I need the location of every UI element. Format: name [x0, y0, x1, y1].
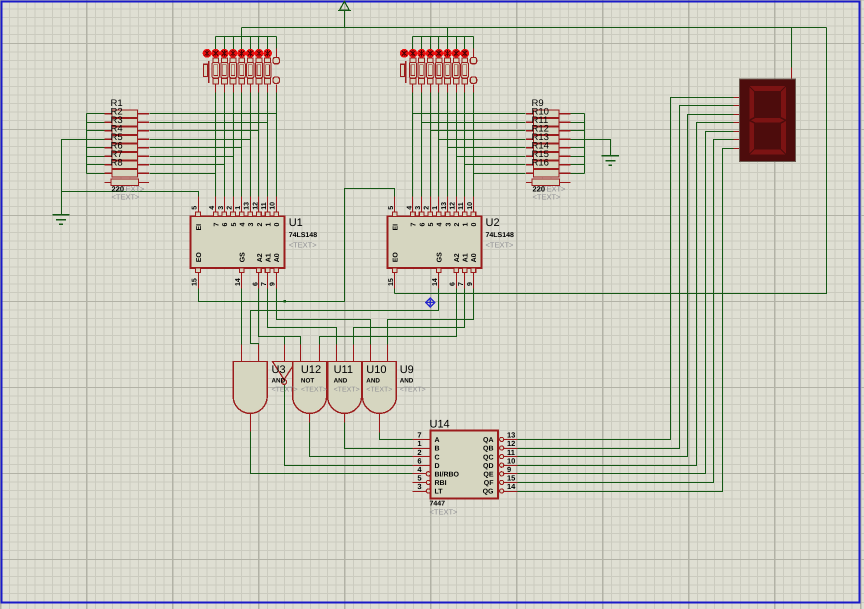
ground GND right: [602, 156, 619, 165]
wire: U12 output to U14 D: [285, 385, 413, 466]
gate input pin stubs: [241, 345, 243, 362]
segment B (top-right): [781, 87, 786, 120]
svg-text:GS: GS: [437, 252, 444, 262]
power symbol (arrow up): [338, 1, 351, 10]
svg-text:13: 13: [244, 202, 251, 210]
segment C (bottom-right): [781, 121, 786, 154]
wire: ground branch to U1 EI: [62, 192, 199, 199]
wire: VCC power rail: [242, 27, 827, 29]
svg-text:R8: R8: [111, 157, 123, 168]
wire: U10 output to U14 B: [345, 423, 413, 449]
wire: U2 A1 to U10 input b: [354, 289, 465, 345]
wire: R1 right to switch column: [150, 113, 277, 115]
svg-text:13: 13: [441, 202, 448, 210]
wire: R7 right to switch column: [150, 164, 225, 166]
svg-text:R16: R16: [532, 157, 549, 168]
wire: right DIP bus: [413, 36, 474, 38]
svg-text:12: 12: [450, 202, 457, 210]
wire: R10 left to switch column: [422, 122, 526, 124]
svg-text:6: 6: [450, 282, 457, 286]
wire: U14 QA to display segment 1: [518, 98, 734, 440]
wire: left DIP bus drop col 7: [267, 37, 269, 50]
wire: left pack bus vertical: [86, 114, 88, 174]
wire: R4 right to switch column: [150, 139, 251, 141]
wire: U2 A0 to U9 input b: [388, 289, 474, 345]
wire: R2 right to switch column: [150, 122, 268, 124]
wire: right DIP col 5 to U2 input: [447, 93, 449, 197]
DIP switch DSW2 element 1 toggle dot: [409, 49, 418, 58]
DIP switch DSW1 common pads: [273, 57, 279, 83]
U2 top pin numbers: [388, 202, 474, 210]
wire: U2 EO down to row: [394, 289, 396, 294]
wire: left DIP col 8 to U1 input: [276, 93, 278, 197]
svg-text:3: 3: [417, 482, 421, 491]
U14 right pin stubs: [504, 439, 518, 441]
DIP switch DSW2 element 3 body: [427, 58, 434, 84]
wire: U1 A0 to U9 input a: [277, 289, 371, 345]
resistor R6: [105, 153, 150, 160]
svg-text:AND: AND: [272, 378, 286, 385]
DIP switch DSW2 bracket toggle dot: [400, 49, 409, 58]
DIP switch DSW1 element 6 toggle dot: [255, 49, 264, 58]
svg-text:A0: A0: [274, 253, 281, 262]
wire: right DIP bus drop col 5: [447, 37, 449, 50]
wire: U14 QG to display segment 7: [518, 149, 734, 492]
wire: R14 left to switch column: [457, 156, 526, 158]
U14 left pin stubs: [413, 439, 431, 441]
svg-text:QD: QD: [483, 463, 494, 470]
AND gate U3: [233, 362, 267, 414]
wire: R6 left to bus: [87, 156, 105, 158]
U2 bottom pin stubs: [394, 273, 396, 289]
svg-text:B: B: [435, 446, 440, 453]
U1 top pin numbers: [191, 202, 276, 210]
resistor R9: [526, 110, 571, 117]
svg-text:U14: U14: [430, 419, 450, 431]
svg-text:<TEXT>: <TEXT>: [112, 192, 141, 201]
svg-text:A1: A1: [463, 253, 470, 262]
resistor R2: [105, 119, 150, 126]
U1 pin names: [196, 223, 281, 263]
svg-text:AND: AND: [400, 378, 414, 385]
wire: R11 right to bus: [571, 130, 585, 132]
wire: right DIP col 4 to U2 input: [438, 93, 440, 197]
resistor R11: [526, 127, 571, 134]
AND gate U10: [328, 362, 362, 414]
svg-text:<TEXT>: <TEXT>: [272, 387, 298, 394]
svg-text:NOT: NOT: [301, 378, 314, 385]
svg-text:QE: QE: [483, 472, 493, 479]
DIP switch DSW1 element 7 toggle dot: [263, 49, 272, 58]
74LS148 U1 body: [191, 216, 285, 268]
wire: right pack bus tap to ground: [585, 140, 611, 156]
DIP switch DSW1 element 2 toggle dot: [220, 49, 229, 58]
DIP switch DSW2 element 6 toggle dot: [452, 49, 461, 58]
wire: R15 right to bus: [571, 164, 585, 166]
svg-text:A1: A1: [265, 253, 272, 262]
svg-text:1: 1: [265, 223, 272, 227]
svg-text:<TEXT>: <TEXT>: [334, 387, 360, 394]
DIP switch DSW1 element 2 body: [221, 58, 228, 84]
DIP switch DSW1 element 7 body: [264, 58, 271, 84]
wire: U14 QB to display segment 2: [518, 106, 734, 449]
svg-text:5: 5: [191, 206, 198, 210]
wire: left DIP bus drop col 2: [224, 37, 226, 50]
DIP switch DSW2 element 4 toggle dot: [434, 49, 443, 58]
resistor R5: [105, 144, 150, 151]
DIP switch DSW2 bracket: [401, 61, 406, 83]
wire: R6 right to switch column: [150, 156, 234, 158]
svg-text:10: 10: [270, 202, 277, 210]
wire: U14 QF to display segment 6: [518, 140, 734, 483]
svg-text:<TEXT>: <TEXT>: [400, 387, 426, 394]
wire: right DIP col 2 to U2 input: [421, 93, 423, 197]
svg-text:U3: U3: [272, 364, 286, 376]
svg-text:QA: QA: [483, 437, 494, 444]
resistor R1: [105, 110, 150, 117]
wire: R8 left to bus: [87, 173, 105, 175]
wire: R9 left to switch column: [413, 113, 526, 115]
U14 output bubbles: [500, 437, 504, 493]
svg-text:2: 2: [257, 223, 264, 227]
wire: rail drop to right DIP bus: [447, 28, 449, 37]
wire: R10 right to bus: [571, 122, 585, 124]
wire: left DIP bus drop common: [276, 37, 278, 49]
wire: R11 left to switch column: [431, 130, 526, 132]
wire: right DIP col 7 to U2 input: [464, 93, 466, 197]
wire: left DIP bus drop col 4: [241, 37, 243, 50]
DIP switch DSW1 element 4 body: [238, 58, 245, 84]
wire: R5 left to bus: [87, 147, 105, 149]
wire: U14 QE to display segment 5: [518, 132, 734, 474]
left DIP bottom stubs: [215, 85, 217, 93]
wire: R7 left to bus: [87, 164, 105, 166]
wire: left DIP col 2 to U1 input: [224, 93, 226, 197]
right DIP common top stub: [473, 49, 475, 58]
U1 top pin stubs: [198, 197, 200, 213]
wire: right DIP col 6 to U2 input: [456, 93, 458, 197]
svg-text:A: A: [435, 437, 440, 444]
DIP switch DSW2 common pads: [470, 57, 476, 83]
svg-text:4: 4: [437, 223, 444, 227]
wire: right pack bus vertical: [584, 114, 586, 174]
segment A (top): [750, 86, 785, 91]
svg-text:U2: U2: [486, 217, 500, 229]
wire: R1 left to bus: [87, 113, 105, 115]
U1 pin pads: [196, 212, 279, 273]
wire: R9 right to bus: [571, 113, 585, 115]
wire: right DIP bus drop col 6: [456, 37, 458, 50]
wire: U1 GS to U3 input a: [241, 289, 243, 345]
svg-text:<TEXT>: <TEXT>: [366, 387, 392, 394]
U1 bottom pin stubs: [198, 273, 200, 289]
wire: rail right riser to U2 EO row: [395, 28, 827, 294]
svg-text:1: 1: [235, 206, 242, 210]
DIP switch DSW1 element 6 body: [255, 58, 262, 84]
wire: R5 right to switch column: [150, 147, 242, 149]
wire: U9 output to U14 A: [380, 433, 413, 440]
svg-text:15: 15: [388, 278, 395, 286]
NOT gate U12: [273, 362, 296, 385]
DIP switch DSW2 element 2 body: [418, 58, 425, 84]
svg-text:D: D: [435, 463, 440, 470]
wire: right DIP bus drop common: [473, 37, 475, 49]
svg-text:3: 3: [415, 206, 422, 210]
wire: right DIP col 3 to U2 input: [430, 93, 432, 197]
wire: R4 left to bus: [87, 139, 105, 141]
svg-text:QC: QC: [483, 454, 494, 461]
segment G (middle): [751, 118, 784, 123]
segment D (bottom): [750, 150, 785, 155]
svg-text:<TEXT>: <TEXT>: [533, 192, 562, 201]
svg-text:1: 1: [463, 223, 470, 227]
U2 pin pads: [392, 212, 475, 273]
U14 left pin names: [435, 437, 460, 496]
ground GND left: [52, 215, 69, 224]
U2 pin names: [393, 223, 479, 263]
wire: R16 left to switch column: [474, 173, 526, 175]
svg-text:2: 2: [454, 223, 461, 227]
DIP switch DSW2 element 7 toggle dot: [460, 49, 469, 58]
svg-text:2: 2: [424, 206, 431, 210]
svg-text:U1: U1: [289, 217, 303, 229]
DIP switch DSW1 element 1 toggle dot: [211, 49, 220, 58]
7447 U14 body: [431, 431, 499, 499]
wire: left DIP col 1 to U1 input: [215, 93, 217, 197]
DIP switch DSW1 element 3 toggle dot: [229, 49, 238, 58]
DIP switch DSW2 element 4 body: [435, 58, 442, 84]
wire: U1 A1 to U10 input a: [268, 289, 337, 345]
DIP switch DSW1 bracket toggle dot: [203, 49, 212, 58]
wire: left DIP col 7 to U1 input: [267, 93, 269, 197]
U14 right pin names: [483, 437, 495, 496]
svg-text:<TEXT>: <TEXT>: [486, 241, 515, 250]
svg-text:5: 5: [231, 223, 238, 227]
DIP switch DSW1 element 3 body: [229, 58, 236, 84]
svg-text:14: 14: [432, 278, 439, 286]
AND gate U11: [293, 362, 327, 414]
wire: U11 output to U14 C: [310, 423, 413, 457]
resistor pack RN2 common bar: [526, 179, 571, 185]
DIP switch DSW2 element 2 toggle dot: [417, 49, 426, 58]
wire: R8 right to switch column: [150, 173, 216, 175]
segment E (bottom-left): [749, 121, 754, 154]
wire: R2 left to bus: [87, 122, 105, 124]
wire: R12 left to switch column: [439, 139, 526, 141]
wire: left DIP bus: [216, 36, 277, 38]
DIP switch DSW2 element 5 body: [444, 58, 451, 84]
svg-text:<TEXT>: <TEXT>: [430, 508, 459, 517]
DIP switch DSW1 bracket: [203, 61, 208, 83]
wire: U2 GS to U3 input b: [251, 289, 439, 345]
svg-text:QF: QF: [484, 480, 494, 487]
DIP switch DSW2 element 5 toggle dot: [443, 49, 452, 58]
wire: R3 left to bus: [87, 130, 105, 132]
wire: left DIP col 5 to U1 input: [250, 93, 252, 197]
wire: right DIP bus drop col 4: [438, 37, 440, 50]
svg-text:5: 5: [428, 223, 435, 227]
svg-text:EI: EI: [393, 224, 400, 231]
wire: R13 left to switch column: [448, 147, 526, 149]
svg-text:10: 10: [467, 202, 474, 210]
svg-text:2: 2: [226, 206, 233, 210]
wire: left DIP bus drop col 3: [233, 37, 235, 50]
wire: left DIP bus drop col 1: [215, 37, 217, 50]
DIP switch DSW1 element 4 toggle dot: [237, 49, 246, 58]
wire: R15 left to switch column: [465, 164, 526, 166]
resistor pack RN1 common bar: [105, 179, 150, 185]
svg-text:6: 6: [419, 223, 426, 227]
7-segment display body: [739, 79, 795, 161]
svg-text:A2: A2: [454, 253, 461, 262]
svg-text:<TEXT>: <TEXT>: [289, 241, 318, 250]
svg-text:A0: A0: [471, 253, 478, 262]
wire: right DIP bus drop col 3: [430, 37, 432, 50]
wire: right DIP bus drop col 2: [421, 37, 423, 50]
svg-text:AND: AND: [334, 378, 348, 385]
svg-text:RBI: RBI: [435, 480, 447, 487]
wire: U14 QC to display segment 3: [518, 115, 734, 457]
resistor R3: [105, 127, 150, 134]
U14 right pin numbers: [507, 431, 516, 492]
svg-text:1: 1: [432, 206, 439, 210]
DIP switch DSW2 element 3 toggle dot: [426, 49, 435, 58]
svg-text:C: C: [435, 454, 440, 461]
resistor R16: [526, 170, 571, 177]
svg-text:9: 9: [467, 282, 474, 286]
resistor R14: [526, 153, 571, 160]
svg-text:12: 12: [252, 202, 259, 210]
wire: right DIP col 8 to U2 input: [473, 93, 475, 197]
svg-text:6: 6: [252, 282, 259, 286]
svg-text:7: 7: [261, 282, 268, 286]
resistor R10: [526, 119, 571, 126]
svg-text:A2: A2: [257, 253, 264, 262]
svg-text:0: 0: [471, 223, 478, 227]
wire: U14 QD to display segment 4: [518, 123, 734, 466]
svg-text:5: 5: [388, 206, 395, 210]
wire: rail drop to left DIP bus: [241, 28, 243, 37]
U2 bottom pin numbers: [388, 278, 474, 286]
74LS148 U2 body: [387, 216, 481, 268]
wire: U1 A2 row to U12/U11: [259, 289, 301, 345]
svg-text:11: 11: [261, 202, 268, 210]
svg-text:4: 4: [239, 223, 246, 227]
wire: left DIP bus drop col 5: [250, 37, 252, 50]
DIP switch DSW1 element 5 toggle dot: [246, 49, 255, 58]
DIP switch DSW2 element 1 body: [409, 58, 416, 84]
right DIP bottom stubs: [412, 85, 414, 93]
segment F (top-left): [749, 87, 754, 120]
U1 bottom pin numbers: [191, 278, 276, 286]
wire: left DIP col 3 to U1 input: [233, 93, 235, 197]
svg-text:6: 6: [222, 223, 229, 227]
wire: U3 output to U14 BI/RBO: [251, 432, 413, 474]
svg-text:EO: EO: [393, 252, 400, 263]
svg-text:74LS148: 74LS148: [289, 232, 318, 239]
DIP switch DSW1 element 5 body: [247, 58, 254, 84]
DIP switch DSW2 element 6 body: [453, 58, 460, 84]
wire: rail drop to display common pin: [791, 28, 793, 68]
wire: right DIP col 1 to U2 input: [412, 93, 414, 197]
display pin stubs: [734, 97, 740, 99]
svg-text:U11: U11: [334, 364, 353, 376]
svg-text:0: 0: [274, 223, 281, 227]
svg-text:BI/RBO: BI/RBO: [435, 471, 460, 479]
svg-text:3: 3: [218, 206, 225, 210]
wire: U2 A2 to U11 input b: [320, 289, 457, 345]
wire: right DIP bus drop col 7: [464, 37, 466, 50]
svg-text:QG: QG: [483, 489, 494, 496]
wire: left pack bus tap to ground: [62, 140, 87, 215]
svg-text:15: 15: [191, 278, 198, 286]
wire: U1 A2 tap to U12 NOT input: [284, 337, 286, 345]
wire: right DIP bus drop col 1: [412, 37, 414, 50]
resistor R8: [105, 170, 150, 177]
svg-text:GS: GS: [240, 252, 247, 262]
svg-text:QB: QB: [483, 446, 494, 453]
wire: left DIP col 6 to U1 input: [258, 93, 260, 197]
svg-text:EI: EI: [196, 224, 203, 231]
svg-text:14: 14: [235, 278, 242, 286]
wire: left DIP bus drop col 6: [258, 37, 260, 50]
svg-text:AND: AND: [366, 378, 380, 385]
resistor R7: [105, 161, 150, 168]
DIP switch DSW2 element 7 body: [461, 58, 468, 84]
svg-text:7: 7: [458, 282, 465, 286]
svg-text:14: 14: [507, 482, 516, 491]
wire: left DIP col 4 to U1 input: [241, 93, 243, 197]
wire: R3 right to switch column: [150, 130, 259, 132]
resistor R15: [526, 161, 571, 168]
resistor R4: [105, 136, 150, 143]
svg-text:7: 7: [214, 223, 221, 227]
svg-text:9: 9: [270, 282, 277, 286]
AND gate U9: [362, 362, 396, 414]
wire: R14 right to bus: [571, 156, 585, 158]
svg-text:7: 7: [411, 223, 418, 227]
svg-text:LT: LT: [435, 489, 444, 496]
wire: U1 EO to U2 EI: [199, 189, 395, 302]
svg-text:EO: EO: [196, 252, 203, 263]
wire: R16 right to bus: [571, 173, 585, 175]
resistor R13: [526, 144, 571, 151]
DIP switch DSW1 element 1 body: [212, 58, 219, 84]
origin marker (blue diamond): [426, 298, 435, 307]
svg-text:11: 11: [458, 202, 465, 210]
svg-text:4: 4: [209, 206, 216, 210]
svg-text:U12: U12: [301, 364, 321, 376]
svg-text:74LS148: 74LS148: [486, 232, 515, 239]
svg-text:U9: U9: [400, 364, 414, 376]
svg-text:7447: 7447: [430, 501, 446, 508]
svg-text:4: 4: [406, 206, 413, 210]
svg-text:3: 3: [248, 223, 255, 227]
left DIP common top stub: [276, 49, 278, 58]
U14 input bubbles: [426, 472, 430, 493]
wire: R13 right to bus: [571, 147, 585, 149]
svg-text:3: 3: [445, 223, 452, 227]
wire: power arrow drop: [344, 11, 346, 28]
gate output pin stubs: [250, 414, 252, 432]
resistor R12: [526, 136, 571, 143]
U2 top pin stubs: [394, 197, 396, 213]
wire: R12 right to bus: [571, 139, 585, 141]
U14 left pin numbers: [417, 431, 422, 492]
svg-text:U10: U10: [366, 364, 386, 376]
svg-text:<TEXT>: <TEXT>: [301, 387, 327, 394]
